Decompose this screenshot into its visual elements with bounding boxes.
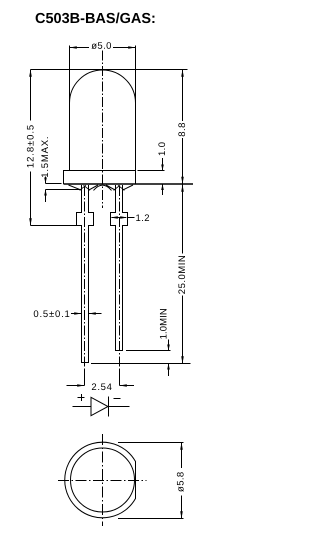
dim 12.8 line — [30, 70, 32, 226]
dim 1.2 tab width — [112, 217, 135, 219]
flange bottom thick line + right extension — [64, 183, 194, 185]
diode minus sign — [114, 398, 121, 400]
svg-text:2.54: 2.54 — [91, 382, 112, 393]
svg-text:1.5MAX.: 1.5MAX. — [40, 136, 51, 178]
standoff line — [46, 189, 81, 191]
dim 1.5MAX arrows — [45, 177, 47, 203]
diode right wire — [109, 406, 130, 408]
bottom view vertical centerline — [102, 434, 104, 526]
top extension line — [31, 69, 188, 71]
dim 1.0 flange thickness — [138, 170, 165, 172]
right lead centerline — [119, 186, 121, 386]
middle meniscus arc — [94, 185, 112, 190]
left lead outline — [77, 185, 94, 363]
svg-text:ø5.8: ø5.8 — [176, 471, 187, 492]
centerline solid stubs to 2.54 dim — [85, 370, 120, 386]
diode plus sign — [78, 394, 85, 401]
svg-text:0.5±0.1: 0.5±0.1 — [33, 309, 70, 320]
svg-text:1.0: 1.0 — [157, 142, 168, 156]
diode triangle — [91, 397, 108, 415]
dim phi5.0 line — [70, 47, 136, 49]
left lead bottom edge — [82, 362, 89, 364]
flange bottom left stub — [46, 183, 62, 185]
right lead taper — [106, 185, 133, 190]
dim phi5.8 extensions — [118, 443, 184, 519]
svg-text:8.8: 8.8 — [177, 122, 188, 137]
left lead end extension — [91, 363, 191, 365]
flange left edge and top edge — [64, 171, 136, 185]
dim 8.8 — [182, 70, 184, 185]
left lead taper — [69, 185, 99, 190]
dome arc — [70, 70, 136, 103]
svg-text:ø5.0: ø5.0 — [91, 41, 112, 52]
right lead end extension — [126, 350, 171, 352]
diode left wire — [73, 406, 92, 408]
left lead centerline — [84, 186, 86, 386]
diode cathode bar — [108, 397, 110, 417]
right lead outline — [111, 185, 128, 351]
body centerline — [102, 51, 104, 209]
bottom view inner circle — [71, 448, 135, 512]
svg-text:C503B-BAS/GAS:: C503B-BAS/GAS: — [35, 11, 156, 27]
dim 2.54 — [67, 385, 135, 387]
bottom view horizontal centerline — [58, 480, 147, 482]
svg-text:1.0MIN: 1.0MIN — [158, 308, 169, 339]
dim phi5.8 line — [181, 443, 183, 519]
extension + body side right (continues to flange bottom) — [135, 46, 137, 185]
dim 12.8 bottom extension — [31, 225, 77, 227]
dim 25.0MIN — [182, 185, 184, 364]
svg-text:25.0MIN: 25.0MIN — [177, 255, 188, 294]
right lead bottom edge — [116, 350, 123, 352]
svg-text:12.8±0.5: 12.8±0.5 — [25, 124, 36, 168]
dim 1.0MIN — [168, 340, 170, 377]
extension + body side left — [69, 46, 71, 171]
svg-text:1.2: 1.2 — [135, 213, 149, 224]
bottom view outer circle with flat — [65, 442, 136, 518]
